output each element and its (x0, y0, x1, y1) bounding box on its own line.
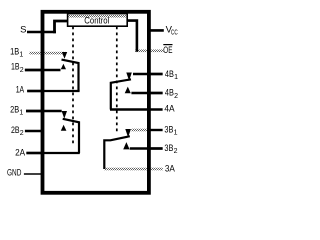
svg-text:1: 1 (174, 130, 178, 137)
svg-text:1: 1 (19, 110, 23, 117)
svg-text:3B: 3B (164, 125, 173, 136)
svg-text:2: 2 (174, 148, 178, 155)
svg-text:OE: OE (163, 45, 172, 56)
svg-text:1A: 1A (16, 85, 25, 96)
svg-text:GND: GND (7, 168, 21, 179)
svg-text:2B: 2B (10, 104, 19, 115)
svg-text:4B: 4B (165, 69, 174, 80)
svg-text:1B: 1B (11, 62, 20, 73)
svg-text:2: 2 (174, 93, 178, 100)
svg-text:3A: 3A (165, 164, 176, 175)
svg-text:1B: 1B (10, 46, 19, 57)
svg-text:1: 1 (174, 74, 178, 81)
svg-text:CC: CC (171, 30, 178, 37)
svg-text:2: 2 (20, 130, 24, 137)
svg-text:2B: 2B (11, 125, 20, 136)
svg-text:4B: 4B (165, 88, 174, 99)
svg-text:1: 1 (19, 52, 23, 59)
svg-text:S: S (20, 25, 26, 36)
svg-text:2A: 2A (15, 147, 26, 158)
svg-text:Control: Control (84, 16, 109, 27)
svg-text:4A: 4A (164, 104, 175, 115)
svg-text:3B: 3B (164, 143, 173, 154)
svg-text:2: 2 (20, 67, 24, 74)
